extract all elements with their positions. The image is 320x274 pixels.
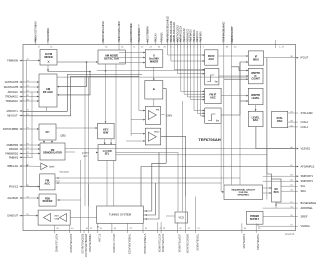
svg-text:IFAGC2: IFAGC2: [9, 185, 19, 189]
svg-text:MIX2: MIX2: [154, 132, 160, 134]
svg-text:AOUTRBLANKXD: AOUTRBLANKXD: [69, 234, 72, 253]
svg-text:VLEVEL: VLEVEL: [301, 147, 311, 151]
svg-text:DABOUT: DABOUT: [7, 214, 18, 218]
svg-text:FMBW50Q: FMBW50Q: [5, 152, 18, 156]
svg-text:MUX: MUX: [253, 57, 259, 61]
svg-text:ADDRSEL: ADDRSEL: [301, 206, 314, 210]
svg-text:RDSDMADBLNKLDXF: RDSDMADBLNKLDXF: [84, 234, 87, 258]
svg-text:lim: lim: [216, 120, 219, 123]
svg-text:TGAINFMMIX: TGAINFMMIX: [47, 27, 50, 42]
svg-text:RDSDAVBLNKLDX: RDSDAVBLNKLDX: [81, 234, 84, 254]
svg-text:FMNAMNOISEBLANKLD: FMNAMNOISEBLANKLD: [167, 16, 170, 42]
svg-text:COIL1: COIL1: [301, 125, 309, 129]
svg-text:MUT: MUT: [55, 216, 60, 218]
svg-text:BUFFER: BUFFER: [43, 200, 53, 203]
svg-text:AMFMAGCLDX: AMFMAGCLDX: [180, 26, 183, 43]
svg-text:XTALGND: XTALGND: [301, 111, 313, 115]
svg-text:TGAIN2X: TGAIN2X: [160, 32, 163, 42]
svg-text:SMPORT1: SMPORT1: [301, 174, 314, 178]
svg-text:BP: BP: [45, 130, 49, 134]
svg-text:TAMFM3X: TAMFM3X: [200, 31, 203, 42]
svg-text:TRDMAGC: TRDMAGC: [5, 95, 18, 99]
svg-text:IFOUT: IFOUT: [301, 56, 309, 60]
svg-text:threshold: threshold: [60, 170, 70, 173]
svg-text:VCO: VCO: [178, 217, 183, 220]
svg-text:VCOT1BLANKDX: VCOT1BLANKDX: [158, 234, 161, 253]
svg-text:level: level: [50, 166, 55, 168]
svg-text:VANTAGTB: VANTAGTB: [5, 80, 19, 84]
svg-text:lim: lim: [215, 81, 218, 84]
svg-text:(2fB): (2fB): [61, 136, 66, 138]
svg-text:TAMNOISEBLANKD: TAMNOISEBLANKD: [118, 21, 121, 42]
svg-text:B/W: B/W: [103, 131, 109, 135]
svg-text:FMBW50I: FMBW50I: [7, 143, 19, 147]
svg-text:WANTAGTB: WANTAGTB: [4, 85, 19, 89]
svg-text:BUS: BUS: [274, 191, 279, 194]
svg-text:SDA: SDA: [301, 189, 307, 193]
svg-text:MIXER: MIXER: [44, 55, 52, 59]
svg-text:COIL2: COIL2: [301, 120, 309, 124]
svg-text:OSC: OSC: [277, 119, 283, 123]
svg-text:LEVEL: LEVEL: [252, 97, 261, 100]
svg-text:TGAINAGC2: TGAINAGC2: [186, 28, 189, 42]
svg-text:DETECTOR: DETECTOR: [104, 56, 119, 60]
svg-text:UPFLILT BLNKDX: UPFLILT BLNKDX: [112, 234, 114, 253]
svg-text:TRFMAGC: TRFMAGC: [5, 99, 18, 103]
svg-text:1 2 3 FM: 1 2 3 FM: [102, 151, 111, 153]
svg-text:TAGCNFMX2: TAGCNFMX2: [138, 27, 141, 42]
svg-text:SEQUENTIAL CIRCUIT: SEQUENTIAL CIRCUIT: [231, 188, 255, 191]
svg-text:GNDVCOBLNKDX: GNDVCOBLNKDX: [186, 234, 188, 254]
svg-text:LOOPFBLANKDX: LOOPFBLANKDX: [177, 234, 180, 253]
svg-text:1, 47: 1, 47: [279, 47, 285, 49]
svg-text:AMNBLANKAGLDIN: AMNBLANKAGLDIN: [170, 21, 173, 43]
svg-text:SUPPLY: SUPPLY: [250, 218, 260, 221]
svg-text:MIXOUT-: MIXOUT-: [7, 114, 18, 118]
svg-text:TEF6706AH: TEF6706AH: [198, 137, 220, 142]
svg-text:SMPORT2: SMPORT2: [301, 179, 314, 183]
svg-text:AGCNTRIMFM: AGCNTRIMFM: [146, 27, 149, 43]
svg-text:WBFLAG: WBFLAG: [7, 164, 18, 168]
svg-text:TUNING SYSTEM: TUNING SYSTEM: [109, 213, 132, 217]
svg-text:VCOT2BLANKDX: VCOT2BLANKDX: [161, 234, 164, 253]
svg-text:SREF: SREF: [301, 215, 308, 219]
svg-text:VTUNEBLANKAGC: VTUNEBLANKAGC: [143, 234, 146, 255]
svg-text:FMMIXIN: FMMIXIN: [7, 59, 18, 63]
svg-text:AGCNTRSTFMLD: AGCNTRSTFMLD: [130, 23, 133, 42]
svg-text:AGC: AGC: [208, 57, 214, 61]
svg-text:MIXOUT+: MIXOUT+: [7, 109, 19, 113]
svg-text:TAMAGCLD2: TAMAGCLD2: [183, 28, 186, 43]
svg-text:AOUTLBLANKXD: AOUTLBLANKXD: [54, 234, 57, 253]
svg-text:TFMFMAGBLANKD: TFMFMAGBLANKD: [223, 21, 226, 42]
svg-text:AFSAMPLE: AFSAMPLE: [301, 165, 315, 169]
svg-text:FMMIXVCOTANKIN: FMMIXVCOTANKIN: [35, 21, 38, 42]
svg-text:TSYSBLANKDX: TSYSBLANKDX: [195, 234, 198, 251]
svg-text:MIXER: MIXER: [150, 59, 158, 63]
svg-text:DAC: DAC: [253, 119, 259, 122]
svg-text:GAIN: GAIN: [166, 113, 172, 117]
svg-text:FM: FM: [156, 110, 159, 112]
svg-text:SCL: SCL: [301, 184, 307, 188]
svg-text:ANTAGC: ANTAGC: [8, 90, 19, 94]
svg-text:AMNTAGCLDX2: AMNTAGCLDX2: [176, 24, 179, 42]
svg-text:AMNBLANKAGLD2: AMNBLANKAGLD2: [173, 21, 176, 42]
svg-text:TAMFMG2X: TAMFMG2X: [193, 29, 196, 42]
svg-text:DEMODULATOR: DEMODULATOR: [43, 152, 62, 155]
svg-text:AGC: AGC: [44, 181, 50, 185]
svg-text:COUNT: COUNT: [251, 78, 260, 81]
svg-text:AGC: AGC: [210, 95, 216, 99]
svg-text:FIRSTFMBW: FIRSTFMBW: [3, 127, 19, 131]
svg-text:FOR PIN: FOR PIN: [239, 192, 248, 194]
svg-text:TGAINBLANKD: TGAINBLANKD: [256, 234, 259, 251]
svg-text:SEL: SEL: [105, 154, 110, 156]
svg-text:BUSENABLE: BUSENABLE: [301, 201, 317, 205]
svg-text:UPDATING: UPDATING: [238, 194, 250, 197]
svg-text:IFGNDBLANK: IFGNDBLANK: [242, 234, 245, 249]
svg-text:FMBW2: FMBW2: [9, 155, 19, 159]
svg-text:TAMFMAGX: TAMFMAGX: [190, 29, 193, 42]
svg-text:RF AGC: RF AGC: [43, 90, 53, 94]
svg-text:DRA: DRA: [55, 218, 60, 221]
svg-text:TMMIXDBLANKX: TMMIXDBLANKX: [88, 234, 91, 253]
svg-text:TRCLKX: TRCLKX: [156, 33, 158, 43]
svg-text:TUNEBLANKAGCX: TUNEBLANKAGCX: [128, 234, 131, 255]
svg-text:TAMAGCX: TAMAGCX: [196, 31, 199, 43]
svg-text:AMNOISEBLANKLD: AMNOISEBLANKLD: [102, 21, 105, 42]
svg-text:ST_AM: ST_AM: [98, 234, 101, 242]
svg-text:VGNDA: VGNDA: [301, 224, 310, 228]
svg-text:AGCBUF: AGCBUF: [7, 196, 18, 200]
svg-text:RFGND: RFGND: [9, 147, 18, 151]
svg-text:02aa518: 02aa518: [285, 233, 295, 236]
